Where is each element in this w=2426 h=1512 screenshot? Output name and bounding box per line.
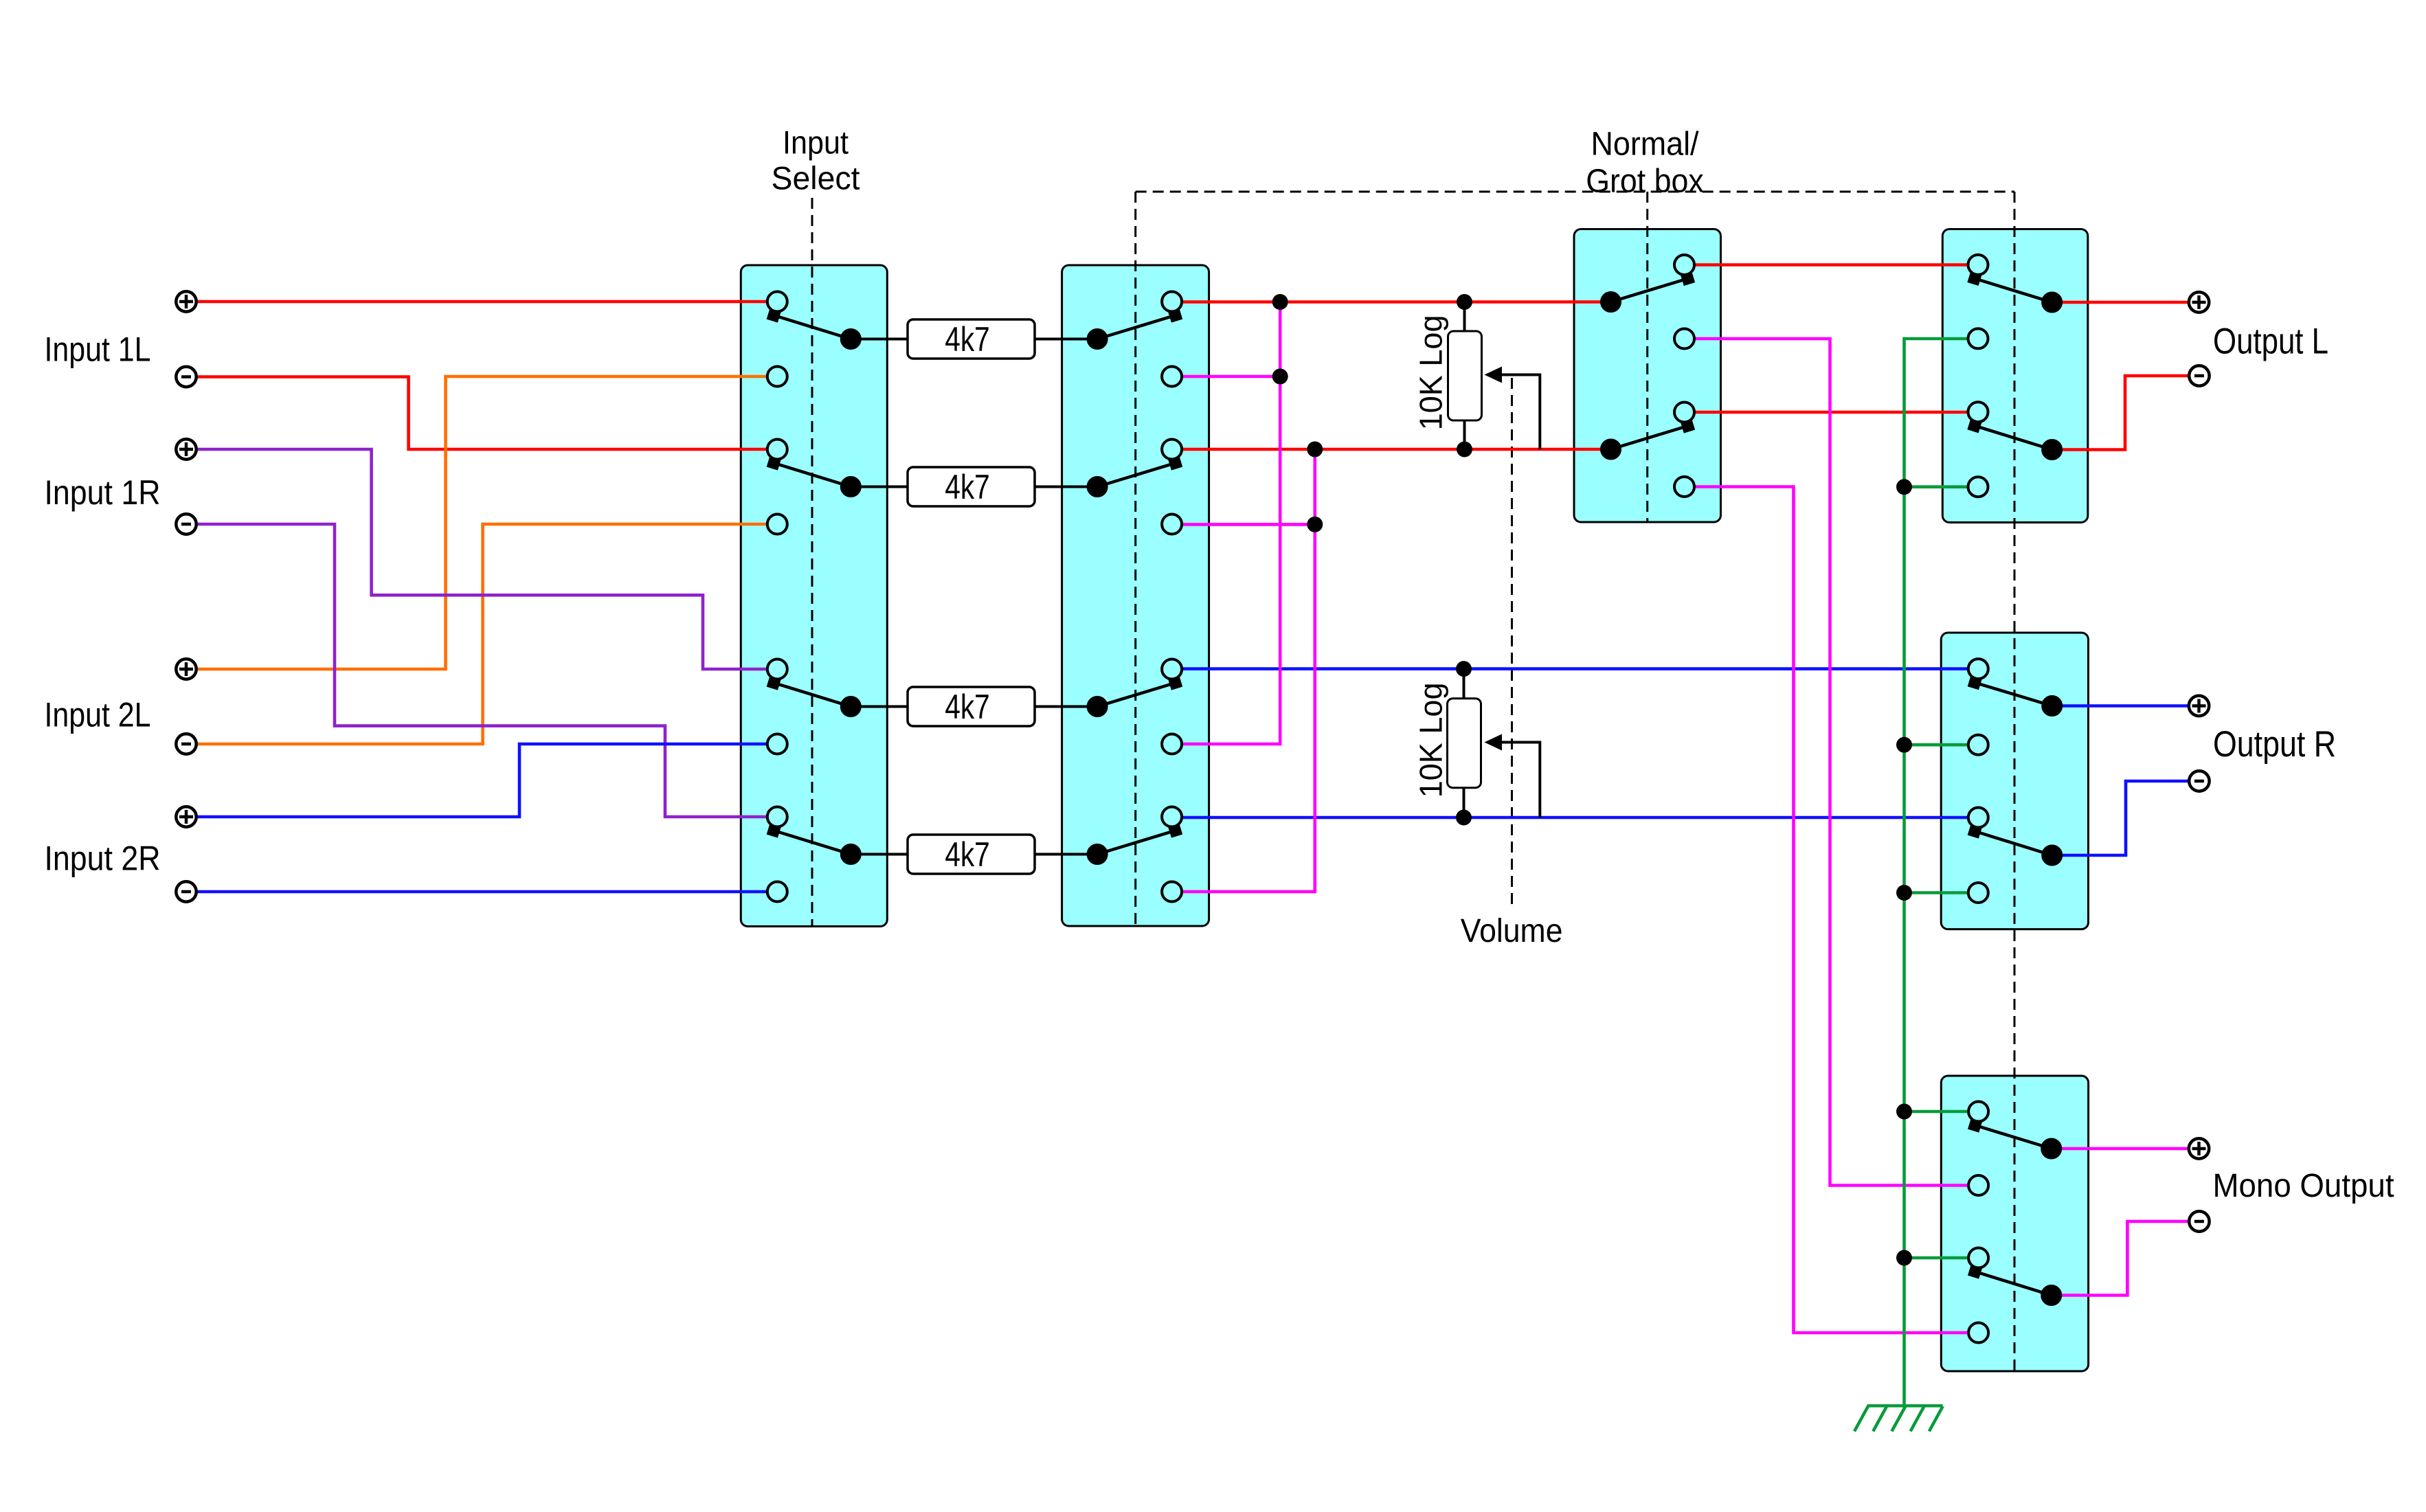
wire R1 to SW2 common [1035,338,1097,341]
wire Input 1L + (red) to SW1 [186,300,777,304]
terminal Output L + ⊕ [2189,292,2209,312]
switch SW3 pole 2 (Normal/Grot) [1601,403,1696,497]
wire net L- (red) SW2 to SW3 common 2 [1172,448,1611,451]
svg-text:10K Log: 10K Log [1413,315,1448,430]
wire grot bus L- (magenta) [1172,449,1315,892]
junction L- / VR1 bottom [1457,442,1472,458]
wire VR2 wiper [1501,743,1540,818]
switch SW2 pole 4 [1087,807,1182,902]
switch SW1 pole 1 [767,292,862,387]
wire R4 to SW2 common [1035,853,1097,856]
wire SW3 to SW4 normal L+ (red) [1685,263,1979,267]
dashed gang line of SW2 [1134,192,1136,926]
switch SW2 pole 2 [1087,440,1182,534]
switch SW5 pole 2 (Output R) [1968,808,2063,903]
junction grot tap L- [1307,517,1323,532]
VR1 wiper arrowhead [1485,367,1503,383]
dashed gang line of SW1 [811,198,813,927]
junction ground / SW4 stub [1896,479,1912,495]
svg-text:4k7: 4k7 [945,688,990,726]
switch SW6 pole 1 (Mono) [1968,1102,2062,1196]
VR2 wiper arrowhead [1485,734,1503,751]
svg-text:Select: Select [772,160,860,196]
wire ground stub to SW5 pin4 (green) [1905,891,1979,894]
switch SW4 pole 2 (Output L) [1967,402,2062,497]
switch bank SW5 (Output R selector) body [1941,633,2088,929]
junction ground / SW5 stub 2 [1896,885,1912,901]
junction grot tap L+ [1272,369,1288,385]
wire ground bus (green) [1905,339,1979,1406]
potentiometer VR1 10K Log (Volume L) [1413,315,1481,430]
wire VR2 bottom lead [1463,788,1465,817]
switch bank SW1 (Input Select pole bodies) body [741,265,887,927]
wire SW1 common to R3 [851,706,908,708]
ground symbol [1854,1406,1943,1431]
svg-text:Output L: Output L [2213,321,2328,362]
resistor R3 4k7 [908,687,1035,726]
wire SW1 common to R2 [851,486,908,488]
switch bank SW2 (Input Select second wafer) body [1062,265,1209,926]
svg-text:Input 2L: Input 2L [45,696,151,734]
wire SW4 common to Output L - (red) [2052,376,2199,450]
svg-text:Input 1L: Input 1L [45,330,151,369]
svg-text:4k7: 4k7 [945,468,990,506]
wire R3 to SW2 common [1035,706,1097,708]
terminal Mono Output + ⊕ [2189,1138,2209,1158]
wire SW2 grot tap L- (magenta) [1172,523,1315,526]
dashed gang line of SW3 [1646,192,1648,522]
terminal Output R + ⊕ [2189,696,2209,716]
wire R2 to SW2 common [1035,486,1097,488]
wire SW1 common to R1 [851,338,908,341]
switch bank SW4 (Output L selector) body [1942,229,2088,523]
potentiometer VR2 10K Log (Volume R) [1413,682,1481,798]
junction ground / SW6 stub [1896,1104,1912,1120]
wire net L+ (red) SW2 to SW3 common [1172,300,1611,304]
dashed gang link Normal/Grot box [1136,191,2014,193]
wire VR1 wiper [1501,375,1540,450]
label Input Select [772,124,860,196]
wire SW4 common to Output L + (red) [2052,301,2199,304]
wire VR1 bottom lead [1463,420,1466,449]
svg-text:4k7: 4k7 [945,835,990,874]
terminal Input 1L + ⊕ [176,291,196,311]
junction L+ / VR1 top [1457,294,1472,310]
junction ground / SW5 stub [1896,737,1912,753]
wire SW6 common to Mono Output + (magenta) [2052,1147,2199,1151]
switch SW2 pole 1 [1087,292,1182,387]
wire VR2 top lead [1463,669,1465,699]
terminal Output R - ⊖ [2189,771,2209,791]
wire SW5 common to Output R - (blue) [2052,781,2199,855]
wire grot bus L+ (magenta) [1172,302,1281,745]
wire SW3 to SW4 normal L- (red) [1685,411,1979,414]
label Normal/Grot box [1586,126,1704,200]
wire SW3 grot + to SW6 (magenta) [1685,339,1979,1186]
wire net R+ (blue) SW2 to SW5 [1172,667,1979,670]
wire SW5 common to Output R + (blue) [2052,704,2199,708]
wire ground stub to SW6 pin1 (green) [1905,1110,1979,1114]
dashed gang line of SW4/SW5/SW6 output selectors [2014,192,2016,1371]
wire Input 1L - (red) to SW1 pole 2 [186,377,777,450]
wire ground stub to SW6 pin3 (green) [1905,1256,1979,1260]
junction L- / grot bus 2 [1307,442,1323,458]
terminal Input 1R - ⊖ [176,514,196,534]
svg-text:Output R: Output R [2213,724,2336,765]
wire net R- (blue) SW2 to SW5 [1172,816,1979,820]
terminal Mono Output - ⊖ [2189,1211,2209,1231]
terminal Input 2R - ⊖ [176,881,196,901]
svg-text:Normal/: Normal/ [1591,126,1700,163]
switch SW1 pole 2 [767,440,862,534]
svg-text:4k7: 4k7 [945,320,990,359]
wire SW2 grot tap L+ (magenta) [1172,375,1281,379]
wire Input 2R + (blue) to SW1 [186,744,777,817]
wire Input 2L - (orange) to SW1 [186,524,777,744]
wire SW3 grot - to SW6 (magenta) [1685,487,1979,1333]
switch bank SW3 (Normal/Grot box, L channel) body [1574,229,1721,523]
resistor R1 4k7 [908,319,1035,359]
terminal Input 2L - ⊖ [176,734,196,754]
wire Input 1R + (purple) to SW1 [186,449,777,669]
wire ground stub to SW4 (green) [1905,485,1979,488]
terminal Input 1L - ⊖ [176,367,196,387]
switch SW1 pole 4 [767,807,862,902]
svg-text:Input 1R: Input 1R [45,473,161,512]
wire ground stub to SW5 pin2 (green) [1905,743,1979,747]
terminal Input 1R + ⊕ [176,439,196,459]
switch SW2 pole 3 [1087,659,1182,754]
svg-text:Input: Input [783,124,849,161]
terminal Output L - ⊖ [2189,365,2209,385]
switch bank SW6 (Mono Output selector) body [1941,1076,2088,1371]
wire SW1 common to R4 [851,853,908,856]
junction R+ / VR2 top [1456,661,1472,677]
switch SW3 pole 1 (Normal/Grot) [1601,255,1696,349]
junction R- / VR2 bottom [1456,810,1472,826]
switch SW6 pole 2 (Mono) [1968,1248,2062,1343]
resistor R4 4k7 [908,835,1035,874]
svg-text:Grot box: Grot box [1586,163,1704,199]
svg-text:Volume: Volume [1461,913,1563,949]
svg-text:10K Log: 10K Log [1413,682,1448,798]
junction ground / SW6 stub 2 [1896,1250,1912,1266]
terminal Input 2R + ⊕ [176,806,196,826]
junction L+ / grot bus [1272,294,1288,310]
resistor R2 4k7 [908,467,1035,506]
wire SW6 common to Mono Output - (magenta) [2052,1221,2199,1296]
svg-text:Input 2R: Input 2R [45,839,161,878]
wire Input 1R - (purple) to SW1 [186,524,777,817]
switch SW4 pole 1 (Output L) [1967,255,2062,349]
wire VR1 top lead [1463,302,1466,331]
wire Input 2R - (blue) to SW1 [186,890,777,894]
switch SW1 pole 3 [767,659,862,754]
switch SW5 pole 1 (Output R) [1968,659,2063,755]
svg-text:Mono Output: Mono Output [2213,1168,2394,1204]
dashed pointer line Volume control [1511,378,1513,910]
wire Input 2L + (orange) to SW1 [186,376,777,669]
terminal Input 2L + ⊕ [176,659,196,679]
